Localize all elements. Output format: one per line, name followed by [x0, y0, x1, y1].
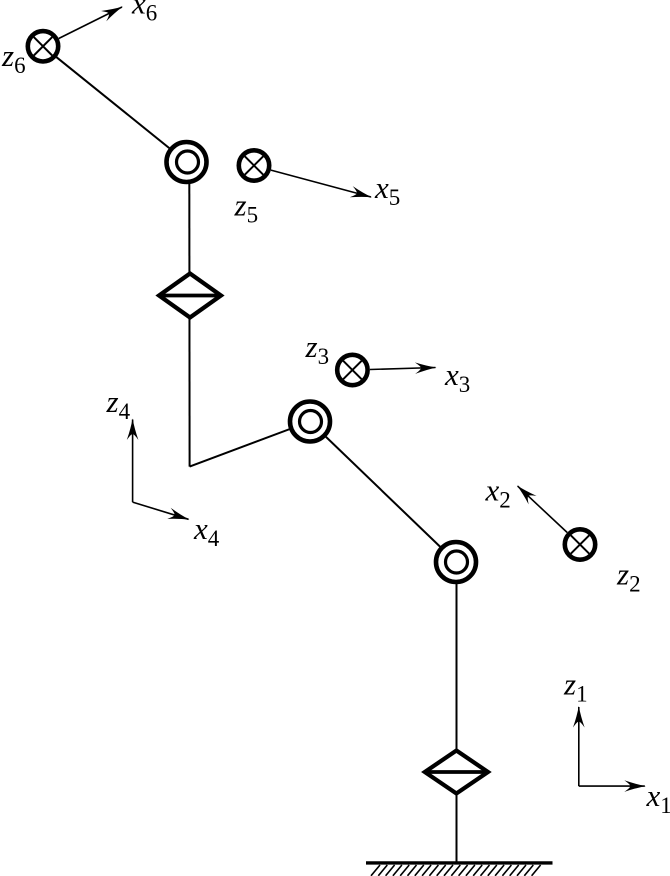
z2 axis symbol (circle-cross) [565, 529, 595, 559]
ground hatching [371, 865, 541, 876]
wire link 2-1: vertical to ground [456, 562, 458, 862]
joint J1 diamond (revolute about link axis) [425, 751, 488, 794]
x6 axis arrow [59, 7, 122, 39]
x1 axis arrow [579, 785, 645, 787]
z1 axis arrow [578, 707, 580, 786]
joint J5 revolute (double circle) [167, 142, 207, 182]
wire link joint 3 to joint 2 [310, 422, 456, 563]
z6 axis symbol (circle-cross, into page) [28, 31, 58, 61]
wire link 5-4: vertical through prismatic-diamond joint [188, 162, 190, 467]
z4 axis arrow [132, 420, 134, 503]
x5 axis arrow [271, 170, 371, 197]
joint J3 revolute (double circle) [290, 402, 330, 442]
wire link bend to joint 3 [190, 422, 310, 467]
joint J4 diamond (revolute about link axis) [159, 274, 221, 318]
z3 axis symbol (circle-cross) [337, 355, 367, 385]
ground line [366, 861, 553, 864]
x2 axis arrow [518, 486, 568, 532]
joint J2 revolute (double circle) [436, 542, 476, 582]
wire link 6: z6 frame to joint 5 [43, 46, 187, 162]
x4 axis arrow [133, 502, 189, 519]
x3 axis arrow [370, 368, 436, 370]
z5 axis symbol (circle-cross) [239, 150, 269, 180]
